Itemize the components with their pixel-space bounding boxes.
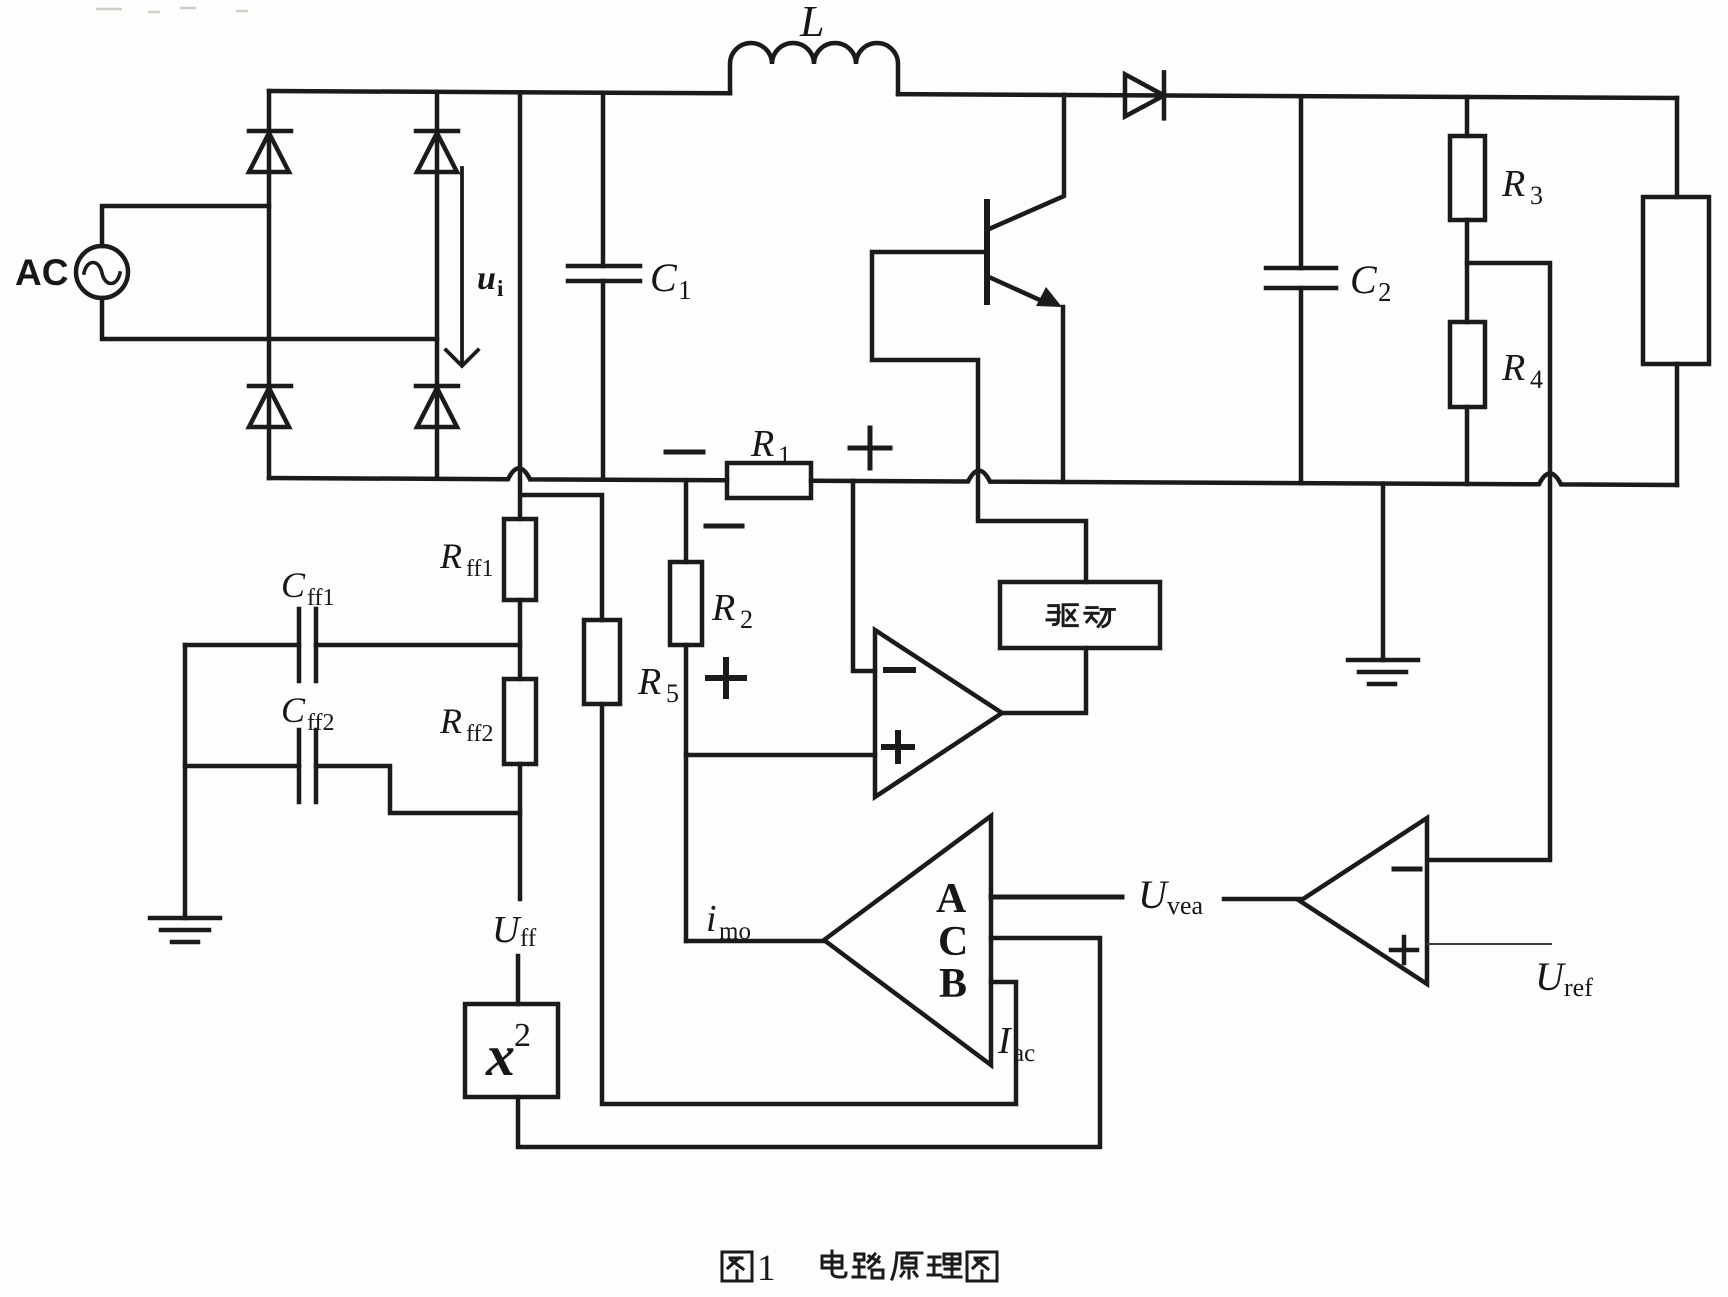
svg-text:1: 1 [757, 1248, 776, 1289]
svg-text:1: 1 [678, 275, 692, 305]
svg-text:2: 2 [740, 605, 753, 634]
svg-text:ac: ac [1013, 1040, 1035, 1067]
svg-text:C: C [1350, 257, 1378, 302]
svg-text:u: u [477, 260, 496, 297]
svg-text:ff1: ff1 [307, 585, 335, 611]
svg-text:ff2: ff2 [466, 721, 494, 747]
svg-text:vea: vea [1167, 891, 1204, 920]
svg-text:mo: mo [719, 918, 751, 945]
svg-text:i: i [706, 898, 717, 940]
svg-text:A: A [936, 876, 967, 922]
svg-text:R: R [439, 701, 462, 741]
svg-text:C: C [281, 565, 306, 605]
svg-text:R: R [750, 423, 774, 465]
svg-text:R: R [637, 661, 661, 703]
svg-text:R: R [1501, 163, 1525, 205]
svg-text:U: U [492, 909, 522, 951]
svg-text:R: R [1501, 347, 1525, 389]
svg-text:ff2: ff2 [307, 710, 335, 736]
svg-text:x: x [485, 1023, 515, 1088]
svg-text:ff1: ff1 [466, 556, 494, 582]
svg-text:U: U [1535, 954, 1567, 999]
svg-text:ff: ff [520, 925, 537, 952]
svg-text:C: C [281, 690, 306, 730]
svg-text:C: C [938, 919, 968, 965]
svg-text:4: 4 [1530, 365, 1543, 394]
svg-text:AC: AC [15, 252, 68, 293]
svg-text:ref: ref [1564, 973, 1593, 1002]
svg-text:I: I [997, 1020, 1013, 1062]
svg-text:U: U [1138, 872, 1170, 917]
svg-text:C: C [650, 255, 678, 300]
svg-text:2: 2 [514, 1017, 531, 1054]
svg-text:i: i [497, 276, 504, 301]
svg-text:R: R [439, 536, 462, 576]
svg-text:2: 2 [1378, 277, 1392, 307]
svg-text:L: L [799, 0, 824, 46]
svg-text:B: B [939, 961, 967, 1007]
svg-text:3: 3 [1530, 181, 1543, 210]
svg-text:1: 1 [778, 441, 791, 470]
svg-text:5: 5 [666, 679, 679, 708]
svg-text:R: R [711, 587, 735, 629]
